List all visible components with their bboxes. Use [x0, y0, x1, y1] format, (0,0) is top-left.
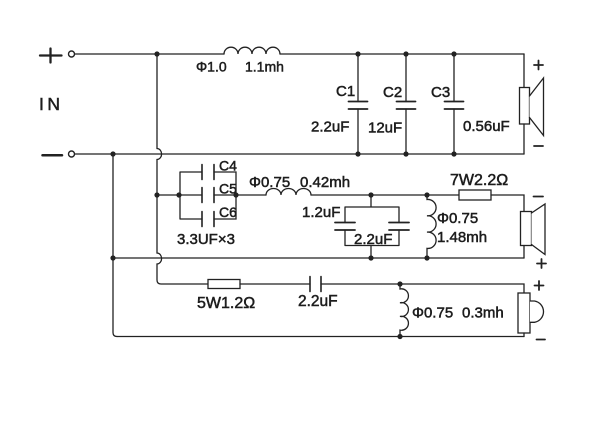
capacitor C6 [202, 212, 214, 227]
junction minus rail [110, 151, 115, 156]
inductor L2 0.42mh [266, 189, 311, 195]
wire R1 to speaker [491, 195, 524, 211]
wire mid bottom rail [113, 257, 524, 259]
wire C bank left bracket [180, 172, 202, 219]
wire mid row to junction [311, 194, 427, 196]
junction mid cap top [368, 192, 373, 197]
wire vertical feed with hop over minus rail [157, 54, 162, 195]
capacitor C1 [349, 54, 368, 154]
junction C3 top [451, 51, 456, 56]
terminal circle + [69, 51, 75, 57]
junction L4 top [397, 281, 402, 286]
resistor R2 5W1.2Ω [208, 280, 240, 289]
resistor R1 7W2.2Ω [459, 190, 491, 200]
svg-text:C3: C3 [431, 84, 450, 101]
wire minus vertical [113, 154, 117, 337]
capacitor 2.2uF mid [335, 230, 409, 258]
wire top rail right [280, 53, 524, 55]
svg-text:0.56uF: 0.56uF [463, 118, 510, 135]
inductor L4 0.3mh [400, 284, 408, 337]
speaker W3 tweeter [518, 293, 544, 337]
junction C bank left [176, 192, 181, 197]
svg-text:Φ1.0: Φ1.0 [196, 59, 227, 75]
svg-text:1.1mh: 1.1mh [245, 59, 284, 75]
svg-text:C1: C1 [336, 83, 355, 100]
svg-text:1.48mh: 1.48mh [437, 229, 487, 246]
svg-text:0.42mh: 0.42mh [300, 174, 350, 191]
junction C bank right [233, 192, 238, 197]
speaker W2 midrange [521, 204, 546, 258]
label + tweeter [535, 281, 544, 290]
wire to resistor R1 [427, 194, 459, 196]
wire C bank right bracket [214, 172, 236, 219]
svg-text:Φ0.75: Φ0.75 [412, 305, 453, 322]
svg-text:2.2uF: 2.2uF [354, 231, 392, 248]
junction C1 bottom [355, 151, 360, 156]
wire top rail left [75, 53, 224, 55]
svg-text:1.2uF: 1.2uF [302, 204, 340, 221]
capacitor C4 [202, 165, 214, 180]
junction L3 top [424, 192, 429, 197]
capacitor C2 [397, 54, 416, 154]
wire R2 to C7 [240, 283, 310, 285]
svg-text:5W1.2Ω: 5W1.2Ω [197, 295, 255, 312]
junction mid bottom left [110, 255, 115, 260]
label + woofer [534, 61, 543, 70]
junction C2 bottom [403, 151, 408, 156]
svg-text:C6: C6 [219, 204, 237, 220]
svg-text:2.2uF: 2.2uF [298, 293, 338, 310]
junction mid cap bottom [368, 255, 373, 260]
inductor L1 1.1mh [224, 47, 280, 54]
wire mid feed row [157, 194, 180, 196]
svg-text:3.3UF×3: 3.3UF×3 [177, 231, 235, 248]
capacitor C7 2.2uF [310, 277, 321, 292]
junction mid feed [154, 192, 159, 197]
svg-text:IN: IN [39, 94, 64, 114]
wire C7 to speaker [321, 284, 524, 293]
speaker W1 woofer [520, 54, 544, 154]
junction L4 bottom [397, 334, 402, 339]
capacitor 1.2uF [335, 195, 409, 223]
svg-text:C2: C2 [383, 84, 402, 101]
svg-text:C4: C4 [219, 158, 237, 174]
capacitor C3 [445, 54, 464, 154]
wire minus rail [75, 153, 524, 155]
junction C3 bottom [451, 151, 456, 156]
input terminal + [40, 49, 62, 63]
capacitor C5 [202, 188, 214, 203]
junction top rail input [154, 51, 159, 56]
terminal circle - [69, 151, 75, 157]
wire tweeter bottom rail [117, 336, 524, 338]
label + midrange [537, 259, 546, 268]
svg-text:Φ0.75: Φ0.75 [249, 174, 290, 191]
junction C1 top [355, 51, 360, 56]
svg-text:0.3mh: 0.3mh [462, 305, 504, 322]
junction C2 top [403, 51, 408, 56]
inductor L3 1.48mh [427, 195, 436, 258]
input terminal - [43, 154, 63, 157]
svg-text:Φ0.75: Φ0.75 [437, 210, 478, 227]
junction L3 bottom [424, 255, 429, 260]
label - tweeter [537, 339, 546, 341]
label - woofer [534, 145, 543, 147]
svg-text:7W2.2Ω: 7W2.2Ω [450, 172, 508, 189]
wire to L2 [236, 194, 266, 196]
label - midrange [534, 196, 544, 198]
wire tweeter feed with hop over mid bottom rail [157, 195, 208, 284]
svg-text:2.2uF: 2.2uF [311, 119, 349, 136]
svg-text:12uF: 12uF [368, 120, 402, 137]
